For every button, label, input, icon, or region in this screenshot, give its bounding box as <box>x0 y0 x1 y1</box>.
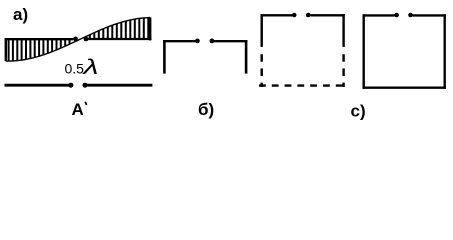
svg-text:0.5: 0.5 <box>65 60 85 76</box>
svg-text:с): с) <box>351 102 366 121</box>
svg-text:А: А <box>72 100 84 119</box>
svg-text:б): б) <box>198 100 214 119</box>
svg-text:а): а) <box>13 5 28 24</box>
svg-text:λ: λ <box>81 55 98 79</box>
